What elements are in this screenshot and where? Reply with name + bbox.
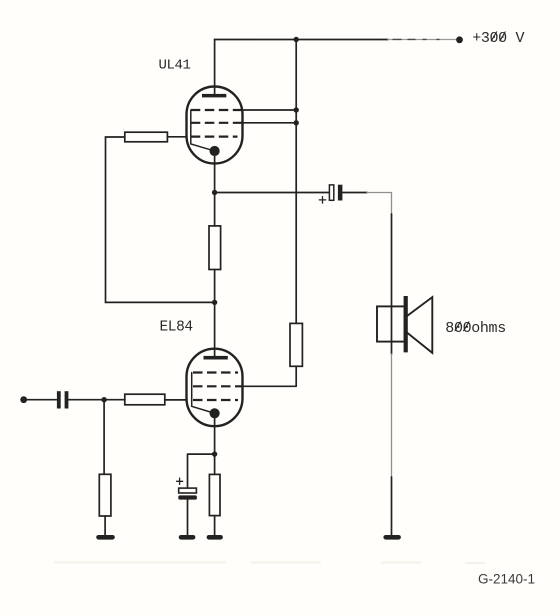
tube V2 anode plate bar: [204, 356, 228, 360]
capacitor C2 solid plate: [338, 185, 343, 201]
junction: rail / screen feed: [294, 37, 299, 42]
tube V1 grid g2 (dashed): [191, 122, 242, 124]
tube V1 UL41 envelope: [187, 87, 243, 164]
wire: C3 to ground: [187, 500, 189, 535]
svg-text:800ohms: 800ohms: [445, 320, 506, 337]
wire: R5 to ground: [104, 516, 106, 535]
wire: cathode node to output capacitor: [215, 192, 330, 194]
junction: UL41 cathode node: [212, 190, 217, 195]
tube V1 grid g3 (dashed): [191, 109, 242, 111]
wire: speaker return to ground: [391, 354, 393, 477]
wire: feedback loop from R1 to EL84 anode node: [106, 137, 215, 302]
capacitor C2 electrolytic output (hollow plus plate): [329, 185, 333, 200]
resistor R3 (screen dropper): [290, 323, 302, 366]
ground: cathode bias: [209, 535, 221, 540]
svg-text:UL41: UL41: [158, 57, 190, 73]
ground: speaker return: [386, 535, 399, 540]
junction: g2/screen line: [294, 120, 299, 125]
faint scan artifact line (decorative): [55, 562, 484, 565]
svg-text:+300 V: +300 V: [472, 30, 524, 47]
wire: C2 to speaker drop: [343, 192, 367, 194]
wire: cathode node to bypass capacitor: [188, 454, 215, 488]
wire: screen supply drop from rail: [295, 40, 297, 324]
tube V2 cathode dot: [210, 408, 220, 418]
resistor R1 (UL41 grid): [125, 132, 168, 142]
junction: EL84 anode node with feedback: [212, 300, 217, 305]
junction: g3/screen line: [294, 107, 299, 112]
wire: EL84 cathode lead: [214, 413, 216, 454]
speaker LS1 horn cone: [407, 297, 432, 353]
tube V2 internal g3-to-cathode tie: [192, 373, 214, 414]
slashed zeros of 800ohms: [455, 322, 469, 331]
node: +300V supply terminal: [456, 36, 463, 43]
capacitor C3 cathode bypass (hollow plus plate): [179, 488, 197, 493]
wire: R4 to EL84 grid: [165, 399, 187, 401]
wire: UL41 grid feed: [167, 136, 186, 138]
capacitor C1 input coupling: [57, 391, 61, 408]
tube V2 grid g1 (dashed): [193, 399, 238, 401]
ground: grid leak: [99, 535, 113, 540]
wire: C1 to grid node: [69, 399, 125, 401]
ground: bypass capacitor: [181, 535, 193, 540]
wire: input terminal to C1: [24, 399, 57, 401]
wire: UL41 g3 to screen line: [242, 109, 297, 111]
junction: EL84 cathode node: [212, 451, 217, 456]
tube V1 internal g3-to-cathode tie: [191, 110, 214, 151]
polarity plus of C3: [177, 478, 183, 484]
tube V1 anode plate bar: [202, 94, 226, 98]
wire: EL84 plate lead: [214, 302, 216, 357]
resistor R5 (grid leak): [99, 474, 111, 516]
junction: EL84 grid node: [101, 397, 106, 402]
resistor R2 (UL41 cathode / EL84 anode load): [214, 193, 216, 303]
node: input terminal: [20, 396, 27, 403]
tube V2 EL84 envelope: [187, 349, 243, 427]
resistor R6 (cathode bias): [209, 474, 220, 515]
speaker LS1 magnet bar: [404, 296, 408, 352]
tube V1 cathode dot: [210, 146, 220, 156]
tube V2 grid g2 (dashed): [193, 385, 242, 387]
svg-text:G-2140-1: G-2140-1: [478, 571, 535, 586]
wire: cathode node to R6: [214, 454, 216, 474]
capacitor C3 solid plate: [178, 495, 197, 499]
wire: grid node to R5: [103, 400, 105, 475]
wire: UL41 plate lead from rail: [214, 40, 216, 96]
polarity plus of C2: [319, 197, 325, 203]
tube V2 grid g3 (dashed): [193, 371, 238, 373]
svg-text:EL84: EL84: [159, 319, 192, 335]
speaker LS1 driver box: [377, 306, 405, 341]
wire: EL84 screen to resistor R3: [242, 366, 296, 386]
wire: +300V top rail: [215, 39, 388, 41]
wire: R6 to ground: [214, 516, 216, 535]
slashed zeros of +300 V: [491, 32, 505, 41]
wire: UL41 g2 to screen line: [242, 122, 297, 124]
resistor R4 (EL84 grid stopper): [125, 394, 165, 405]
tube V1 grid g1 (dashed): [191, 136, 238, 138]
wire: UL41 cathode lead: [214, 151, 216, 193]
